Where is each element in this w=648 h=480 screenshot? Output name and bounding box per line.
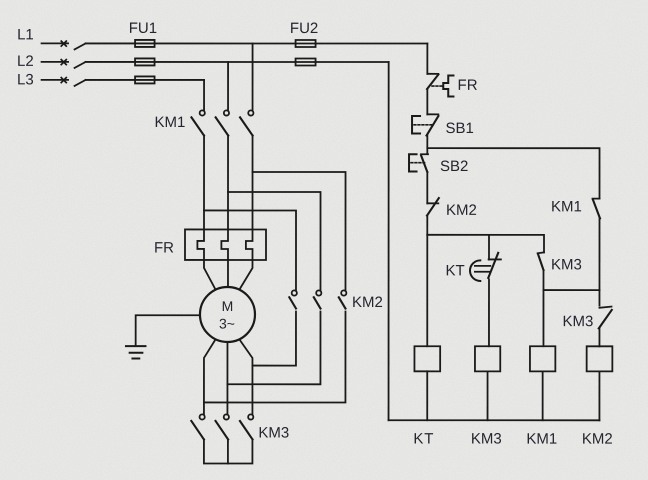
wire KT contact branch drop bbox=[488, 235, 490, 260]
wire motor center to KM2 pole2 bottom bbox=[227, 311, 320, 384]
wire FR pole2 to motor bbox=[227, 260, 229, 287]
svg-text:KM3: KM3 bbox=[258, 424, 289, 441]
label KM3 (main contacts) bbox=[258, 424, 289, 441]
svg-text:KM1: KM1 bbox=[551, 198, 582, 215]
push button SB1 NC bbox=[427, 114, 439, 135]
wire motor right to KM2 pole1 bottom bbox=[252, 311, 296, 365]
svg-text:KM1: KM1 bbox=[526, 431, 557, 448]
svg-text:3~: 3~ bbox=[219, 315, 235, 331]
wire KM3 coil to bottom rail bbox=[487, 371, 489, 420]
coil KM3 bbox=[475, 346, 500, 371]
contactor KM1 main contact pole1 bbox=[191, 110, 204, 135]
FR heater element pole2 bbox=[221, 229, 228, 260]
fuse FU1 pole L1 bbox=[135, 40, 155, 47]
wire KM1 pole2 drop from L2 bbox=[227, 62, 229, 111]
disconnect switch QS pole L3 bbox=[42, 78, 86, 86]
wire FR pole3 to motor bbox=[239, 260, 252, 290]
wire KM1 pole3 to FR bbox=[252, 136, 254, 230]
label KM2 (coil) bbox=[582, 431, 613, 448]
contactor KM2 main contact pole2 bbox=[314, 290, 322, 308]
label FR (heater box) bbox=[154, 239, 174, 256]
FR heater element pole3 bbox=[246, 229, 253, 260]
wire node A down to KT coil bbox=[426, 235, 428, 346]
svg-text:KM3: KM3 bbox=[562, 313, 593, 330]
svg-text:KM1: KM1 bbox=[155, 114, 186, 131]
wire control neutral drop (from FU2-2) bbox=[388, 62, 390, 420]
label KM2 (main contacts) bbox=[352, 294, 383, 311]
svg-text:SB1: SB1 bbox=[446, 120, 474, 137]
svg-text:KM2: KM2 bbox=[582, 431, 613, 448]
wire pole1 branch to KM2 pole1 bbox=[204, 210, 296, 290]
label KM3 (NC aux) bbox=[562, 313, 593, 330]
svg-text:L2: L2 bbox=[17, 53, 34, 70]
label KM1 (NO aux) bbox=[551, 198, 582, 215]
wire pole3 branch to KM2 pole3 bbox=[252, 172, 345, 291]
SB2 actuator bracket with dotted link bbox=[409, 154, 425, 171]
label FU1 bbox=[129, 20, 157, 37]
svg-text:FR: FR bbox=[458, 77, 478, 94]
contactor KM2 main contact pole3 bbox=[339, 290, 347, 308]
label KM1 (coil) bbox=[526, 431, 557, 448]
svg-text:M: M bbox=[222, 298, 234, 314]
label KM3 (NO aux) bbox=[551, 256, 582, 273]
svg-text:SB2: SB2 bbox=[440, 158, 468, 175]
wire FR to SB1 bbox=[426, 89, 428, 114]
contactor KM1 main contact pole3 bbox=[240, 110, 253, 135]
wire motor bottom center drop bbox=[226, 342, 228, 415]
fuse FU1 pole L3 bbox=[135, 76, 155, 83]
label L2 bbox=[17, 53, 34, 70]
push button SB2 NO bbox=[421, 154, 428, 172]
time relay KT delayed contact bbox=[470, 253, 501, 281]
contactor KM1 NO aux contact bbox=[593, 199, 601, 219]
wire KT contact to KM3 coil bbox=[488, 279, 490, 346]
contactor KM1 main contact pole2 bbox=[216, 110, 229, 135]
thermal relay FR heater box bbox=[185, 229, 266, 260]
fuse FU2 pole 1 bbox=[296, 40, 316, 47]
label KT (coil) bbox=[413, 431, 434, 448]
label KM1 (main contacts) bbox=[155, 114, 186, 131]
motor M 3~ bbox=[200, 287, 255, 342]
thermal relay FR NC contact bbox=[427, 74, 438, 89]
contactor KM3 NO aux contact bbox=[538, 252, 544, 270]
wire motor to ground bbox=[136, 315, 200, 346]
contactor KM2 main contact pole1 bbox=[289, 290, 297, 308]
ground symbol bbox=[126, 346, 146, 358]
wire KM1 pole2 to FR bbox=[227, 136, 229, 230]
wire KM1 pole1 drop from L3 bbox=[203, 80, 205, 111]
svg-text:FU2: FU2 bbox=[290, 20, 318, 37]
disconnect switch QS pole L1 bbox=[42, 41, 86, 49]
wire KM2 coil to bottom rail bbox=[598, 371, 600, 420]
label KM3 (coil) bbox=[471, 431, 502, 448]
wire SB2 to KM2 NC bbox=[426, 172, 428, 203]
svg-text:FR: FR bbox=[154, 239, 174, 256]
contactor KM3 main contact pole2 bbox=[216, 414, 229, 439]
wire KM3 NO to node B and KM1 coil bbox=[542, 270, 544, 346]
wire L3 rail bbox=[86, 79, 205, 81]
wire KM2 NC to node A bbox=[426, 216, 428, 235]
svg-text:KM3: KM3 bbox=[471, 431, 502, 448]
svg-text:KT: KT bbox=[445, 262, 464, 279]
coil KM1 bbox=[530, 346, 555, 371]
wire holding branch to KM1 aux bbox=[427, 148, 599, 198]
svg-text:L3: L3 bbox=[17, 71, 34, 88]
FR heater element pole1 bbox=[197, 229, 204, 260]
svg-text:L1: L1 bbox=[17, 26, 34, 43]
wire node A rail bbox=[427, 235, 544, 253]
contactor KM3 main contact pole1 bbox=[191, 414, 204, 439]
svg-text:KM3: KM3 bbox=[551, 256, 582, 273]
label L1 bbox=[17, 26, 34, 43]
disconnect switch QS pole L2 bbox=[42, 60, 86, 68]
label KT (contact) bbox=[445, 262, 464, 279]
label FU2 bbox=[290, 20, 318, 37]
coil KM2 bbox=[587, 346, 613, 371]
wire node B link bbox=[543, 289, 599, 291]
wire pole2 branch to KM2 pole2 bbox=[228, 192, 321, 291]
contactor KM3 main contact pole3 bbox=[240, 414, 253, 439]
wire KM1 aux to node B bbox=[598, 218, 600, 305]
fuse FU2 pole 2 bbox=[296, 58, 316, 65]
svg-text:KM2: KM2 bbox=[352, 294, 383, 311]
svg-text:KT: KT bbox=[413, 431, 434, 448]
wire KM1 coil to bottom rail bbox=[542, 371, 544, 420]
coil KT bbox=[414, 346, 440, 371]
wire FR pole1 to motor bbox=[204, 260, 216, 290]
label KM2 (control) bbox=[446, 202, 477, 219]
svg-text:KM2: KM2 bbox=[446, 202, 477, 219]
wire KM3 NC to KM2 coil bbox=[598, 328, 600, 346]
wire KM1 pole3 drop from L1 bbox=[252, 43, 254, 110]
contactor KM3 NC aux contact bbox=[599, 307, 612, 329]
wire bottom rail bbox=[389, 419, 600, 421]
contactor KM2 NC interlock contact bbox=[427, 198, 439, 216]
label FR (control) bbox=[458, 77, 478, 94]
FR actuator paddle with dotted link bbox=[432, 76, 453, 97]
wire L2 rail bbox=[86, 61, 389, 63]
wire KT coil to bottom rail bbox=[426, 371, 428, 420]
svg-text:FU1: FU1 bbox=[129, 20, 157, 37]
wire motor bottom right drop bbox=[239, 339, 252, 414]
wire L1 rail bbox=[86, 42, 428, 44]
fuse FU1 pole L2 bbox=[135, 58, 155, 65]
wire SB1 to SB2 bbox=[426, 136, 428, 153]
wire motor left to KM2 pole3 bottom bbox=[204, 311, 346, 402]
wire KM3 star links bbox=[204, 439, 253, 463]
wire motor bottom left drop bbox=[204, 339, 216, 414]
label L3 bbox=[17, 71, 34, 88]
SB1 actuator bracket with dotted link bbox=[412, 116, 432, 134]
wire KM1 pole1 to FR bbox=[203, 136, 205, 230]
label SB2 bbox=[440, 158, 468, 175]
label SB1 bbox=[446, 120, 474, 137]
wire control phase drop (from FU2-1) bbox=[426, 44, 428, 74]
